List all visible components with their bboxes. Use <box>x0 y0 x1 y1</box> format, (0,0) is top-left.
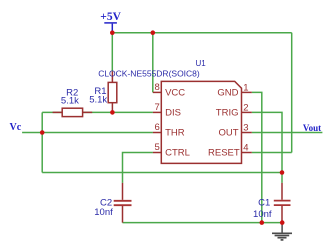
pin 3 stub <box>242 132 252 134</box>
wire long horizontal THR node to C1 top <box>42 172 282 174</box>
wire bottom ground rail <box>123 222 283 224</box>
svg-text:U1: U1 <box>196 59 207 68</box>
pin 7 stub <box>153 111 161 113</box>
wire from +5V node down to R1 <box>111 33 113 71</box>
svg-text:7: 7 <box>155 102 160 113</box>
op-amp U1 body (NE555 box, chamfered corner) <box>161 81 241 163</box>
pin 8 stub <box>153 91 161 93</box>
svg-text:+5V: +5V <box>100 11 121 23</box>
wire OUT pin 3 to Vout <box>252 132 323 134</box>
svg-text:THR: THR <box>165 128 185 139</box>
resistor R2 <box>53 108 93 116</box>
wire RESET pin 4 horizontal <box>252 152 292 154</box>
wire from top rail down to VCC pin 8 <box>152 33 154 93</box>
svg-text:C1: C1 <box>258 198 270 209</box>
wire right rail down to RESET <box>291 33 293 153</box>
wire GND pin 1 down to ground rail <box>252 92 262 222</box>
capacitor C2 <box>114 183 132 223</box>
svg-text:10nf: 10nf <box>253 209 272 220</box>
node TRIG/C1 junction <box>280 170 285 175</box>
svg-text:2: 2 <box>243 103 248 114</box>
wire DIS pin 7 horizontal through R2 and R1 node <box>42 111 153 113</box>
svg-text:1: 1 <box>243 83 248 94</box>
svg-text:VCC: VCC <box>165 88 185 99</box>
svg-text:RESET: RESET <box>208 148 240 159</box>
node R1/R2/DIS junction <box>110 110 115 115</box>
svg-text:5: 5 <box>155 142 160 153</box>
wire TRIG pin 2 down to C1 <box>252 112 282 182</box>
svg-text:Vc: Vc <box>10 122 22 133</box>
svg-text:4: 4 <box>243 143 248 154</box>
svg-text:8: 8 <box>155 82 160 93</box>
svg-text:TRIG: TRIG <box>216 108 239 119</box>
pin 2 stub <box>242 111 252 113</box>
svg-text:3: 3 <box>243 123 248 134</box>
svg-text:OUT: OUT <box>218 128 238 139</box>
svg-text:CLOCK-NE555DR(SOIC8): CLOCK-NE555DR(SOIC8) <box>98 69 200 79</box>
node +5V junction <box>110 30 115 35</box>
node Vc junction <box>40 130 45 135</box>
wire CTRL pin 5 to C2 top <box>123 153 153 183</box>
wire left vertical from DIS run down to bottom run <box>41 112 43 172</box>
pin 6 stub <box>153 132 161 134</box>
svg-text:5.1k: 5.1k <box>89 95 107 106</box>
node C1/ground junction <box>280 220 285 225</box>
capacitor C1 <box>274 183 291 223</box>
pin 1 stub <box>242 91 252 93</box>
svg-text:6: 6 <box>155 122 160 133</box>
ground <box>272 223 292 240</box>
svg-text:10nf: 10nf <box>94 207 113 218</box>
node VCC branch junction <box>151 30 156 35</box>
resistor R1 <box>108 71 117 112</box>
svg-text:DIS: DIS <box>165 108 181 119</box>
svg-text:Vout: Vout <box>303 123 321 133</box>
wire Vc to THR pin 6 <box>22 132 153 134</box>
+5V power flag <box>100 11 121 31</box>
svg-text:GND: GND <box>217 88 238 99</box>
wire top +5V rail <box>112 32 291 34</box>
svg-text:CTRL: CTRL <box>165 148 190 159</box>
node GND pin rail junction <box>260 220 265 225</box>
pin 5 stub <box>153 152 161 154</box>
pin 4 stub <box>242 152 252 154</box>
svg-text:5.1k: 5.1k <box>61 96 79 107</box>
